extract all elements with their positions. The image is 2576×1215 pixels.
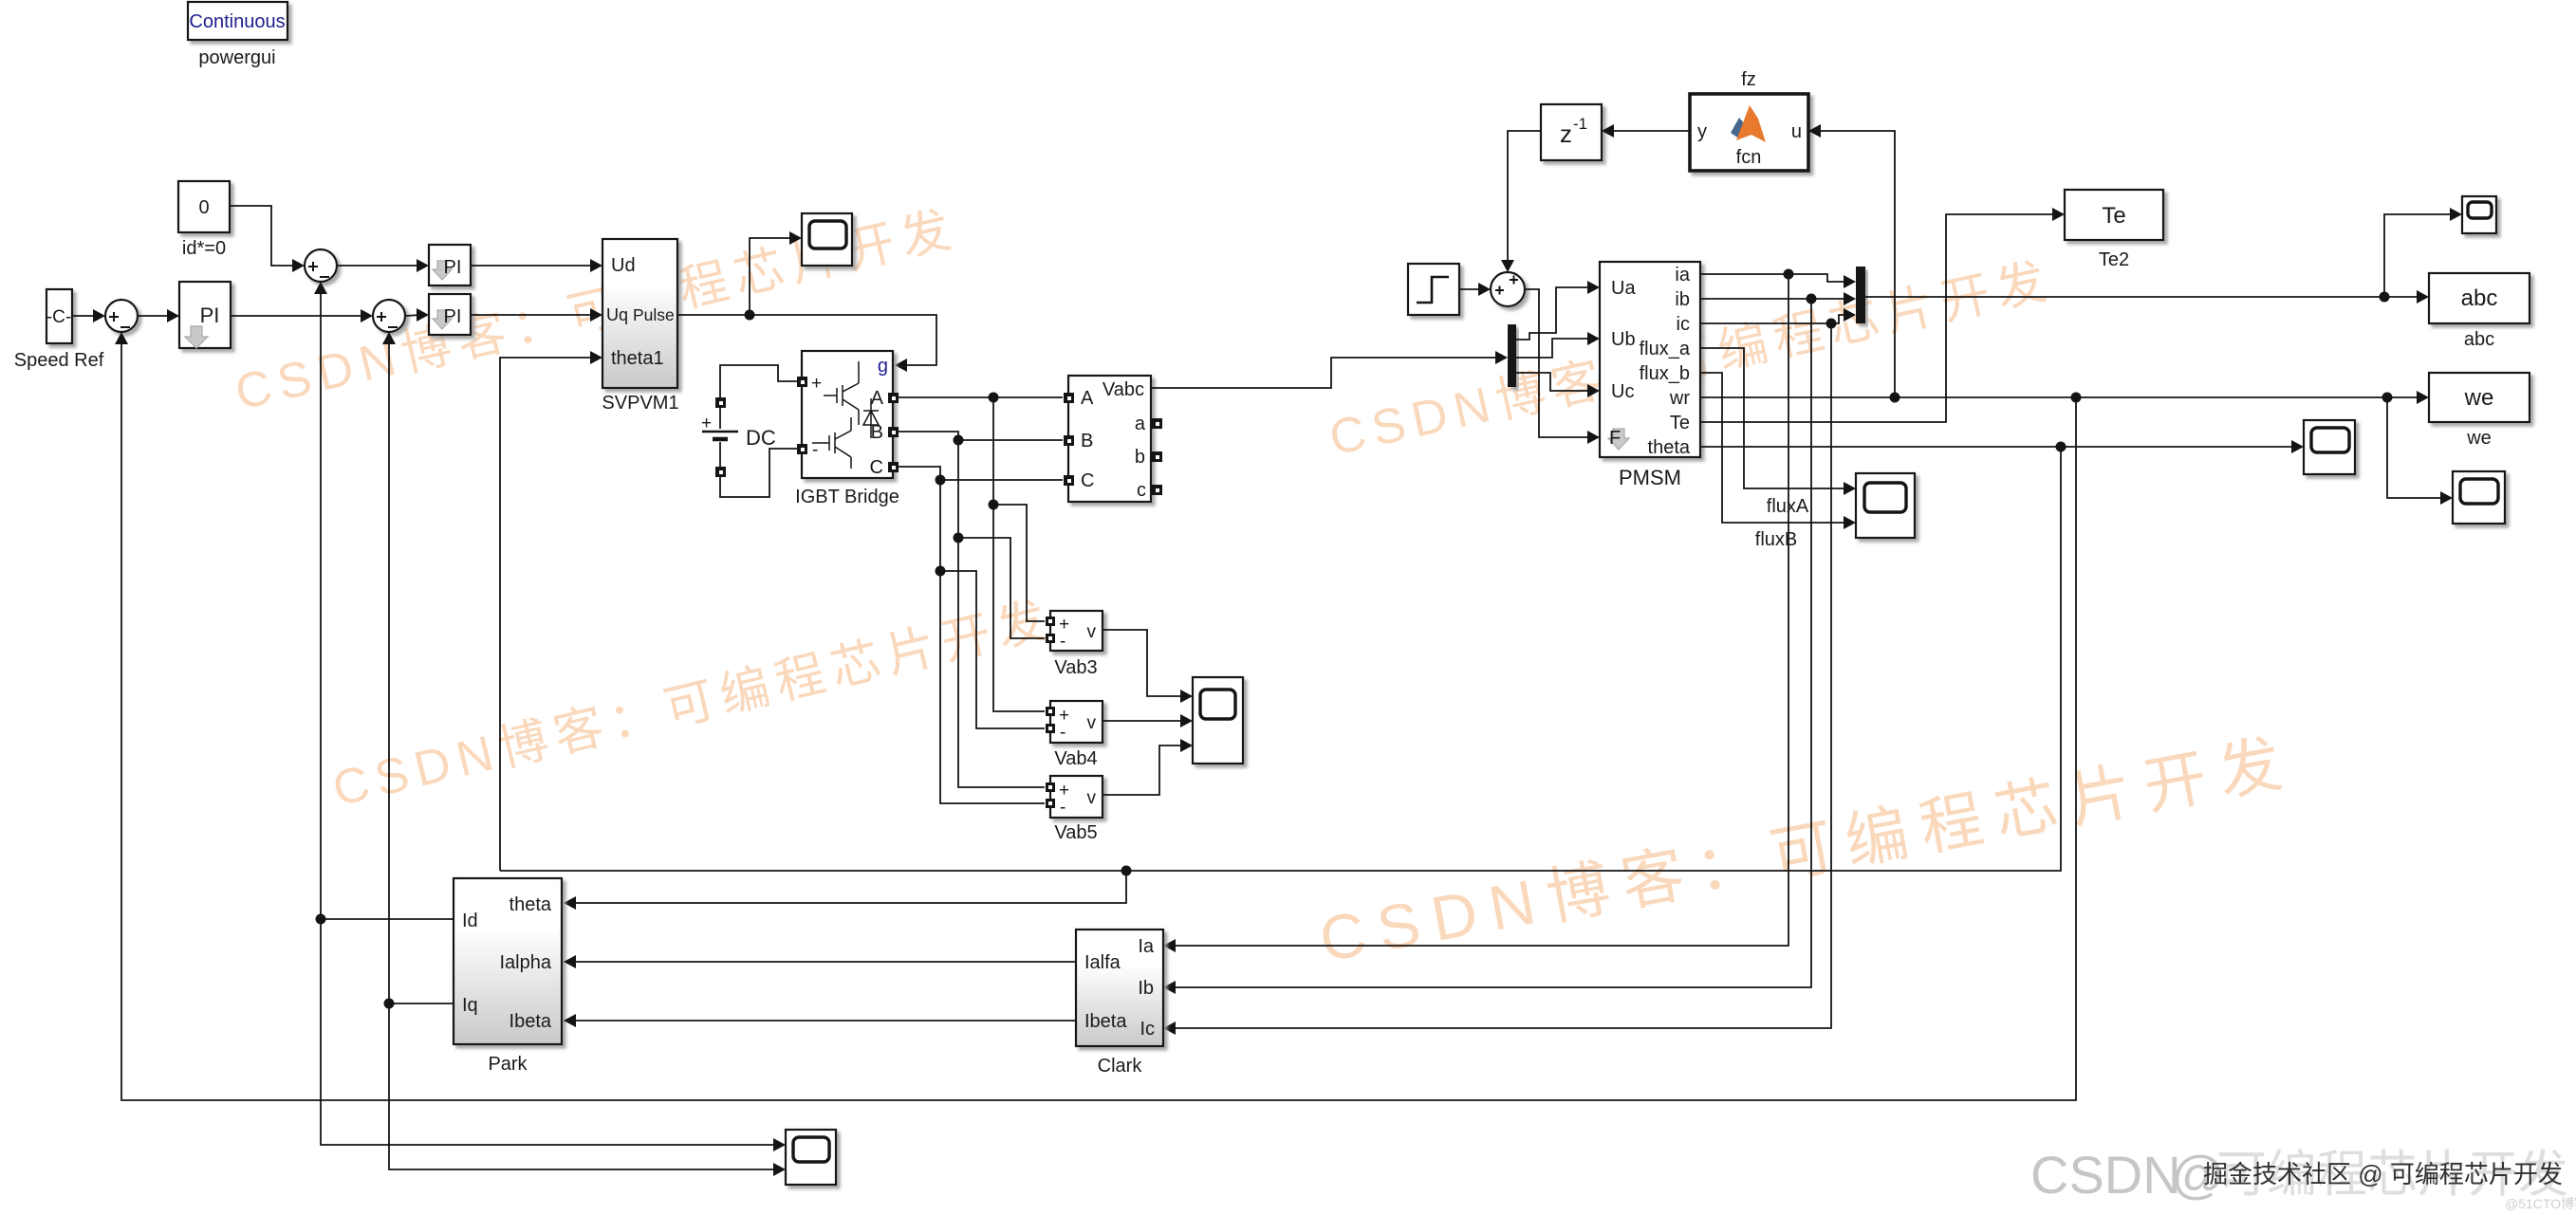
svg-text:Ia: Ia: [1138, 936, 1155, 957]
svg-text:Te2: Te2: [2099, 249, 2129, 270]
junction wr feedback: [2071, 393, 2082, 403]
wire demux to PMSM Uc: [1516, 373, 1592, 391]
svg-text:A: A: [1081, 388, 1094, 409]
svg-text:CSDN博客：可编程芯片开发: CSDN博客：可编程芯片开发: [327, 591, 1059, 817]
svg-text:theta1: theta1: [611, 348, 664, 369]
svg-text:Ialpha: Ialpha: [500, 952, 552, 973]
wire ib feedback to Clark Ib: [1176, 299, 1811, 987]
scope dq: [786, 1130, 836, 1185]
junction Iq: [384, 999, 395, 1009]
step block: [1408, 264, 1459, 315]
wire wr feedback to fz u: [1821, 131, 1895, 397]
Park transform block: [454, 878, 562, 1044]
constant id*=0: [178, 181, 230, 232]
svg-text:Vab4: Vab4: [1054, 748, 1097, 769]
svg-text:-: -: [1060, 632, 1066, 652]
svg-text:we: we: [2464, 385, 2494, 411]
wire we feedback to sum1: [121, 338, 2076, 1100]
svg-text:ic: ic: [1677, 314, 1690, 335]
wire PI q to SVPVM1 Uq: [471, 314, 595, 316]
abc goto block: [2429, 273, 2530, 323]
svg-text:C: C: [870, 457, 883, 478]
svg-text:掘金技术社区 @ 可编程芯片开发: 掘金技术社区 @ 可编程芯片开发: [2203, 1160, 2563, 1188]
svg-text:-: -: [1060, 723, 1066, 743]
scope Vab: [1193, 677, 1243, 764]
junction ia: [1784, 269, 1794, 280]
svg-text:Uc: Uc: [1611, 381, 1634, 402]
svg-text:0: 0: [198, 197, 209, 218]
svg-text:abc: abc: [2464, 329, 2494, 350]
svg-text:flux_b: flux_b: [1640, 363, 1690, 384]
wire branch to scope iabc: [2384, 214, 2455, 297]
wire pulse branch to scope1: [750, 238, 794, 315]
svg-text:Ub: Ub: [1611, 329, 1636, 350]
wire PI speed to sum3: [231, 315, 365, 317]
svg-text:IGBT Bridge: IGBT Bridge: [795, 487, 899, 507]
wire IGBT B to Vabc B: [899, 432, 1063, 440]
wire we branch to scope: [2387, 397, 2445, 498]
svg-text:fz: fz: [1741, 69, 1756, 90]
svg-text:Clark: Clark: [1098, 1056, 1143, 1077]
wire Id feedback to sum2: [320, 287, 322, 919]
svg-text:Park: Park: [488, 1054, 528, 1075]
svg-text:flux_a: flux_a: [1640, 339, 1691, 359]
svg-text:y: y: [1697, 121, 1707, 142]
wire Iq to scope d: [389, 1003, 778, 1169]
wire Clark Ibeta to Park Ibeta: [576, 1020, 1076, 1022]
wire sum4 to PMSM F: [1525, 289, 1592, 437]
svg-text:+: +: [811, 374, 822, 394]
wire phase B down to Vab5 plus: [958, 440, 1045, 787]
z-1 unit delay: [1541, 104, 1602, 160]
svg-text:Ua: Ua: [1611, 278, 1636, 299]
svg-text:z: z: [1560, 120, 1572, 148]
svg-text:c: c: [1137, 480, 1146, 501]
svg-text:we: we: [2466, 428, 2492, 449]
svg-text:ia: ia: [1675, 265, 1690, 285]
svg-text:theta: theta: [1648, 437, 1691, 458]
wire Park Id out: [321, 918, 454, 920]
junction theta feedback: [2056, 442, 2066, 452]
svg-text:Iq: Iq: [462, 995, 478, 1016]
svg-text:Ibeta: Ibeta: [510, 1011, 552, 1032]
junction theta park: [1121, 866, 1132, 876]
svg-text:Vabc: Vabc: [1103, 379, 1144, 400]
svg-text:wr: wr: [1669, 388, 1690, 409]
wire Id to scope d: [321, 919, 778, 1145]
wire phase C down to Vab5 minus: [940, 480, 1045, 803]
junction B2: [954, 533, 964, 543]
scope we: [2453, 471, 2505, 524]
svg-text:F: F: [1609, 428, 1621, 449]
junction Id: [316, 914, 326, 925]
svg-text:Te: Te: [1670, 413, 1690, 433]
Vabc measurement block: [1064, 376, 1162, 502]
wire mux to abc goto: [1865, 296, 2421, 298]
svg-text:CSDN博客：可编程芯片开发: CSDN博客：可编程芯片开发: [1314, 726, 2300, 975]
wire step to sum4: [1459, 288, 1483, 290]
wire PMSM flux_a to scope: [1700, 348, 1848, 488]
svg-text:v: v: [1087, 622, 1097, 642]
svg-text:Speed Ref: Speed Ref: [14, 350, 104, 371]
svg-text:Te: Te: [2102, 203, 2125, 229]
svg-text:powergui: powergui: [198, 47, 275, 68]
wire demux to PMSM Ub: [1516, 339, 1592, 358]
scope1 pulse: [802, 213, 852, 266]
junction ic: [1826, 319, 1837, 329]
scope flux: [1856, 473, 1915, 538]
wire IGBT C to Vabc C: [899, 467, 1063, 480]
junction C: [936, 475, 946, 486]
fz MATLAB function: [1690, 94, 1808, 171]
sum1 speed error: [105, 300, 138, 332]
wire PMSM ia to mux: [1700, 274, 1848, 282]
svg-text:-1: -1: [1573, 115, 1587, 133]
svg-text:-: -: [1060, 798, 1066, 818]
wire fz y to z-1: [1614, 130, 1690, 132]
wire PMSM ic to mux: [1700, 315, 1848, 323]
wire DC minus to IGBT: [720, 449, 798, 497]
wire Vabc bus to demux: [1151, 358, 1500, 388]
svg-text:b: b: [1135, 447, 1145, 468]
sum3 iq error: [373, 300, 405, 332]
wire theta feedback long: [500, 447, 2061, 871]
svg-text:Ialfa: Ialfa: [1084, 952, 1121, 973]
junction C2: [936, 566, 946, 577]
svg-text:fluxA: fluxA: [1767, 496, 1809, 517]
svg-text:g: g: [878, 356, 888, 377]
svg-text:@51CTO博客: @51CTO博客: [2505, 1196, 2576, 1211]
IGBT Bridge block: [797, 351, 899, 478]
svg-text:Continuous: Continuous: [189, 11, 285, 32]
wire PMSM theta to scope: [1700, 446, 2296, 448]
svg-text:PI: PI: [200, 304, 220, 327]
wire theta to Park: [576, 871, 1126, 903]
we goto block: [2429, 373, 2530, 422]
svg-text:PMSM: PMSM: [1619, 466, 1681, 489]
svg-text:DC: DC: [746, 426, 776, 450]
svg-text:abc: abc: [2461, 285, 2498, 311]
svg-text:Vab3: Vab3: [1054, 657, 1097, 678]
svg-text:u: u: [1791, 121, 1802, 142]
wire C branch to Vab4 minus: [940, 571, 1045, 728]
wire Park Iq out: [389, 1003, 454, 1004]
Vab4 voltage measurement: [1046, 701, 1103, 743]
wire IGBT A to Vabc A: [899, 396, 1063, 398]
svg-text:Ibeta: Ibeta: [1084, 1011, 1127, 1032]
wire Vab5 v to scope: [1103, 746, 1185, 795]
sum4 load: [1491, 272, 1525, 306]
svg-text:theta: theta: [510, 894, 552, 915]
wire Iq feedback to sum3: [388, 338, 390, 1003]
wire constant to sum2: [230, 206, 297, 266]
SVPVM1 subsystem: [602, 239, 677, 388]
wire PMSM wr to we goto: [1700, 396, 2421, 398]
svg-text:Ud: Ud: [611, 255, 636, 276]
wire DC plus to IGBT: [720, 365, 798, 397]
svg-text:SVPVM1: SVPVM1: [602, 393, 678, 414]
svg-text:fcn: fcn: [1736, 147, 1762, 168]
svg-text:PI: PI: [444, 257, 462, 278]
Clark transform block: [1076, 930, 1163, 1046]
PI d controller: [429, 245, 471, 285]
wire ia feedback to Clark Ia: [1176, 274, 1788, 946]
svg-text:ib: ib: [1675, 289, 1690, 310]
demux: [1508, 324, 1516, 387]
junction B: [954, 435, 964, 446]
wire Clark Ialfa to Park Ialpha: [576, 961, 1076, 963]
svg-text:Vab5: Vab5: [1054, 822, 1097, 843]
wire PMSM ib to mux: [1700, 298, 1848, 300]
DC voltage source: [701, 397, 738, 477]
IGBT port squares: [797, 377, 807, 387]
svg-text:Uq: Uq: [606, 305, 628, 324]
IGBT icon inside: [812, 361, 879, 469]
wire sum3 to PI q: [405, 315, 421, 316]
scope iabc: [2462, 196, 2496, 233]
PI speed controller: [179, 282, 231, 348]
wire B branch to Vab3 minus: [958, 538, 1045, 638]
svg-text:-C-: -C-: [46, 307, 71, 327]
junction abc branch: [2380, 292, 2390, 303]
svg-text:id*=0: id*=0: [182, 238, 226, 259]
svg-text:C: C: [1081, 470, 1094, 491]
svg-text:Pulse: Pulse: [633, 305, 675, 324]
scope theta: [2304, 420, 2355, 474]
svg-text:Id: Id: [462, 911, 478, 931]
junction pulse branch: [745, 310, 755, 321]
svg-text:Ic: Ic: [1140, 1019, 1155, 1040]
svg-text:Ib: Ib: [1138, 978, 1154, 999]
powergui block: [188, 2, 287, 40]
wire sum1 to PI speed: [138, 315, 172, 317]
svg-text:a: a: [1135, 414, 1146, 434]
Vab3 voltage measurement: [1046, 611, 1103, 652]
svg-text:CSDN: CSDN: [2030, 1145, 2181, 1205]
wire Vab3 v to scope: [1103, 630, 1185, 696]
mux iabc: [1856, 267, 1865, 323]
Vab5 voltage measurement: [1046, 776, 1103, 818]
wire Pulse to IGBT g: [677, 315, 936, 365]
PMSM block: [1600, 262, 1700, 458]
svg-text:v: v: [1087, 713, 1097, 733]
wire PI d to SVPVM1 Ud: [471, 265, 595, 267]
junction A2: [989, 500, 999, 510]
svg-text:v: v: [1087, 788, 1097, 808]
wire phase A down to Vab4 plus: [993, 397, 1045, 711]
svg-text:B: B: [1081, 431, 1093, 451]
junction we scope: [2382, 393, 2393, 403]
svg-text:PI: PI: [444, 306, 462, 327]
svg-text:fluxB: fluxB: [1755, 529, 1797, 550]
wire PMSM flux_b to scope: [1700, 373, 1848, 523]
wire Vab4 v to scope: [1103, 720, 1185, 722]
wire z-1 to sum4: [1508, 131, 1541, 265]
wire demux to PMSM Ua: [1516, 287, 1592, 340]
sum2 id error: [305, 249, 337, 282]
wire sum2 to PI d: [337, 265, 421, 267]
wire PMSM Te to Te goto: [1700, 214, 2057, 422]
junction ib: [1807, 294, 1817, 304]
PI q controller: [429, 294, 471, 335]
wire A branch to Vab3 plus: [993, 505, 1045, 621]
junction A: [989, 393, 999, 403]
junction wr fz: [1890, 393, 1900, 403]
Te goto block: [2065, 190, 2163, 240]
wire Speed Ref to sum1: [72, 315, 98, 317]
svg-text:A: A: [871, 388, 884, 409]
wire theta1 input: [500, 358, 595, 871]
wire ic feedback to Clark Ic: [1176, 323, 1831, 1028]
Speed Ref constant: [46, 289, 72, 343]
